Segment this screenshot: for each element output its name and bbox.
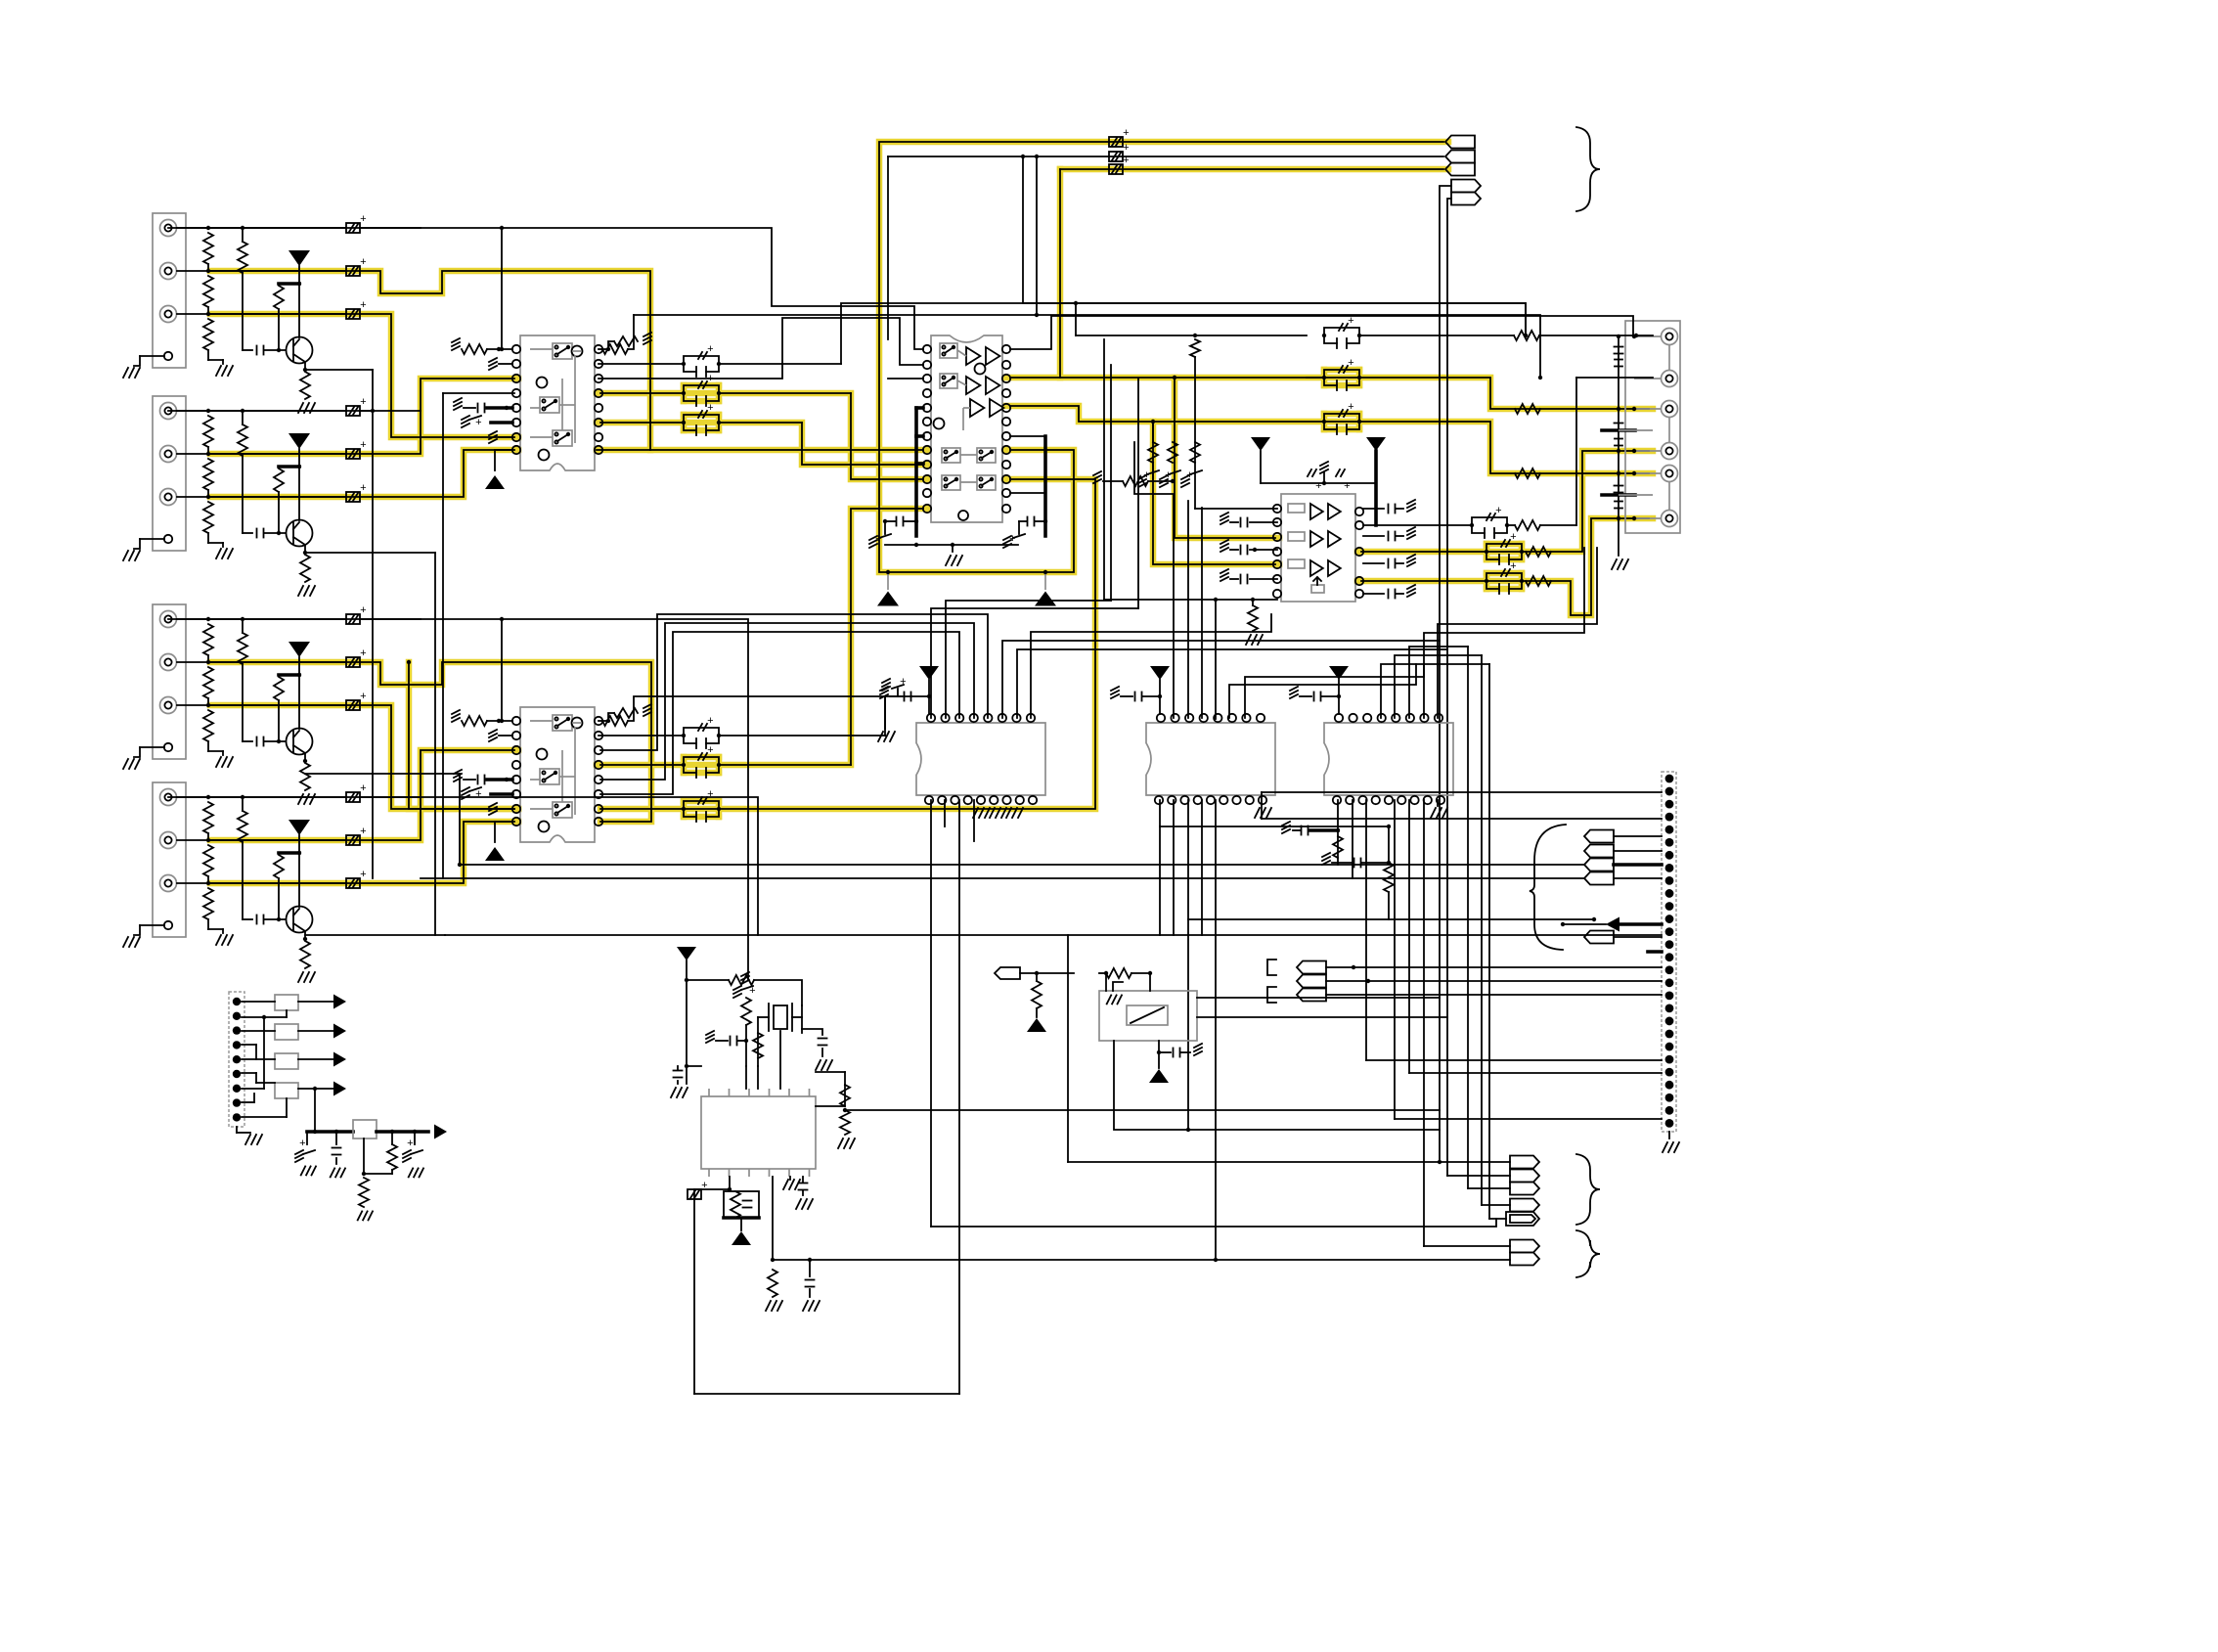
svg-text:+: + (360, 604, 367, 616)
svg-text:+: + (299, 1138, 306, 1149)
svg-text:+: + (707, 715, 714, 727)
svg-text:+: + (1123, 127, 1130, 139)
svg-text:+: + (1344, 480, 1351, 492)
svg-text:+: + (1123, 142, 1130, 154)
svg-text:+: + (360, 482, 367, 494)
svg-text:+: + (360, 439, 367, 451)
svg-text:+: + (475, 417, 482, 428)
svg-text:+: + (360, 869, 367, 880)
svg-text:+: + (707, 373, 714, 384)
svg-text:+: + (1348, 357, 1354, 369)
svg-text:+: + (707, 788, 714, 800)
svg-text:+: + (360, 213, 367, 225)
svg-text:+: + (475, 788, 482, 800)
svg-text:+: + (707, 744, 714, 756)
svg-text:+: + (360, 396, 367, 408)
svg-text:+: + (707, 343, 714, 355)
svg-text:+: + (1495, 505, 1502, 516)
svg-text:+: + (360, 826, 367, 837)
svg-text:+: + (707, 402, 714, 414)
svg-text:+: + (1510, 531, 1517, 543)
svg-text:+: + (407, 1138, 414, 1149)
svg-text:+: + (1123, 155, 1130, 166)
svg-text:+: + (360, 647, 367, 659)
svg-text:+: + (1315, 480, 1322, 492)
svg-text:+: + (1510, 560, 1517, 572)
svg-text:+: + (1348, 401, 1354, 413)
svg-text:+: + (360, 299, 367, 311)
svg-text:+: + (360, 256, 367, 268)
svg-text:+: + (360, 691, 367, 702)
svg-text:+: + (360, 782, 367, 794)
